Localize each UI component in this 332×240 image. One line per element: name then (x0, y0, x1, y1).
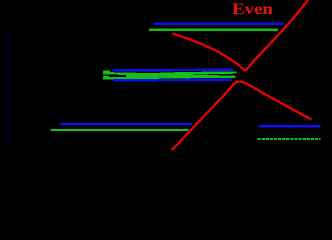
middle cluster green mid band (126, 74, 218, 76)
upper odd level (green) (149, 29, 278, 31)
middle cluster green tick upper-left (103, 70, 110, 72)
lower-right even level (blue) (259, 125, 321, 127)
middle cluster blue bottom (114, 79, 233, 82)
y-axis (8, 30, 10, 148)
middle cluster green 1 (103, 73, 237, 75)
red lower adiabatic curve (171, 81, 312, 151)
red upper adiabatic curve (173, 0, 310, 70)
middle cluster green 2 (103, 77, 236, 79)
upper even level (blue) (154, 23, 284, 25)
middle cluster blue top (113, 69, 234, 72)
middle cluster green tick lower-left (103, 76, 109, 78)
lower-left even level (blue) (60, 123, 193, 125)
lower-left odd level (green) (50, 129, 188, 131)
label Even (232, 1, 273, 19)
lower-right odd level (green, dashed) (258, 138, 321, 140)
